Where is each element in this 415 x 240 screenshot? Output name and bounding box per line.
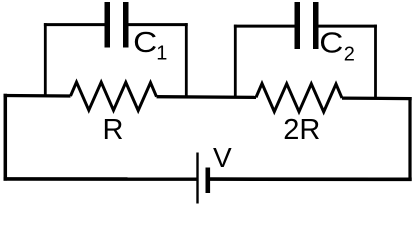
- wire: middle node rail left (left edge to resistor R): [4, 94, 71, 98]
- svg-text:C: C: [133, 26, 157, 58]
- wire: outer loop right side: [408, 97, 411, 181]
- label C1: [133, 26, 167, 65]
- wire: C1 loop top right segment: [129, 23, 188, 26]
- svg-text:2: 2: [344, 44, 355, 66]
- resistor 2R: [256, 84, 342, 112]
- capacitor C1 right plate: [123, 2, 129, 48]
- wire: C1 loop right vertical: [185, 23, 188, 97]
- resistor R: [71, 82, 157, 110]
- wire: C1 loop left vertical: [44, 23, 47, 96]
- capacitor C2 right plate: [313, 2, 319, 49]
- wire: middle node rail right (2R to right edge): [342, 96, 412, 100]
- wire: C2 loop top right segment: [319, 25, 377, 28]
- wire: C2 loop right vertical: [374, 25, 377, 99]
- svg-text:R: R: [103, 114, 124, 146]
- svg-text:V: V: [213, 142, 232, 173]
- battery V negative plate (short thick): [206, 168, 211, 194]
- wire: bottom right segment from battery: [210, 177, 412, 181]
- wire: bottom left segment to battery: [4, 177, 198, 181]
- battery V positive plate (long thin): [196, 153, 198, 204]
- label C2: [319, 27, 355, 66]
- svg-text:1: 1: [156, 43, 167, 65]
- capacitor C1 left plate: [105, 2, 111, 48]
- wire: C2 loop top left segment: [234, 25, 295, 28]
- svg-text:C: C: [319, 27, 343, 59]
- svg-text:2R: 2R: [283, 114, 320, 146]
- capacitor C2 left plate: [295, 2, 301, 49]
- wire: middle node rail center (R to 2R): [157, 95, 257, 99]
- wire: C2 loop left vertical: [234, 25, 237, 98]
- wire: outer loop left side: [4, 94, 8, 181]
- wire: C1 loop top left segment: [44, 23, 105, 26]
